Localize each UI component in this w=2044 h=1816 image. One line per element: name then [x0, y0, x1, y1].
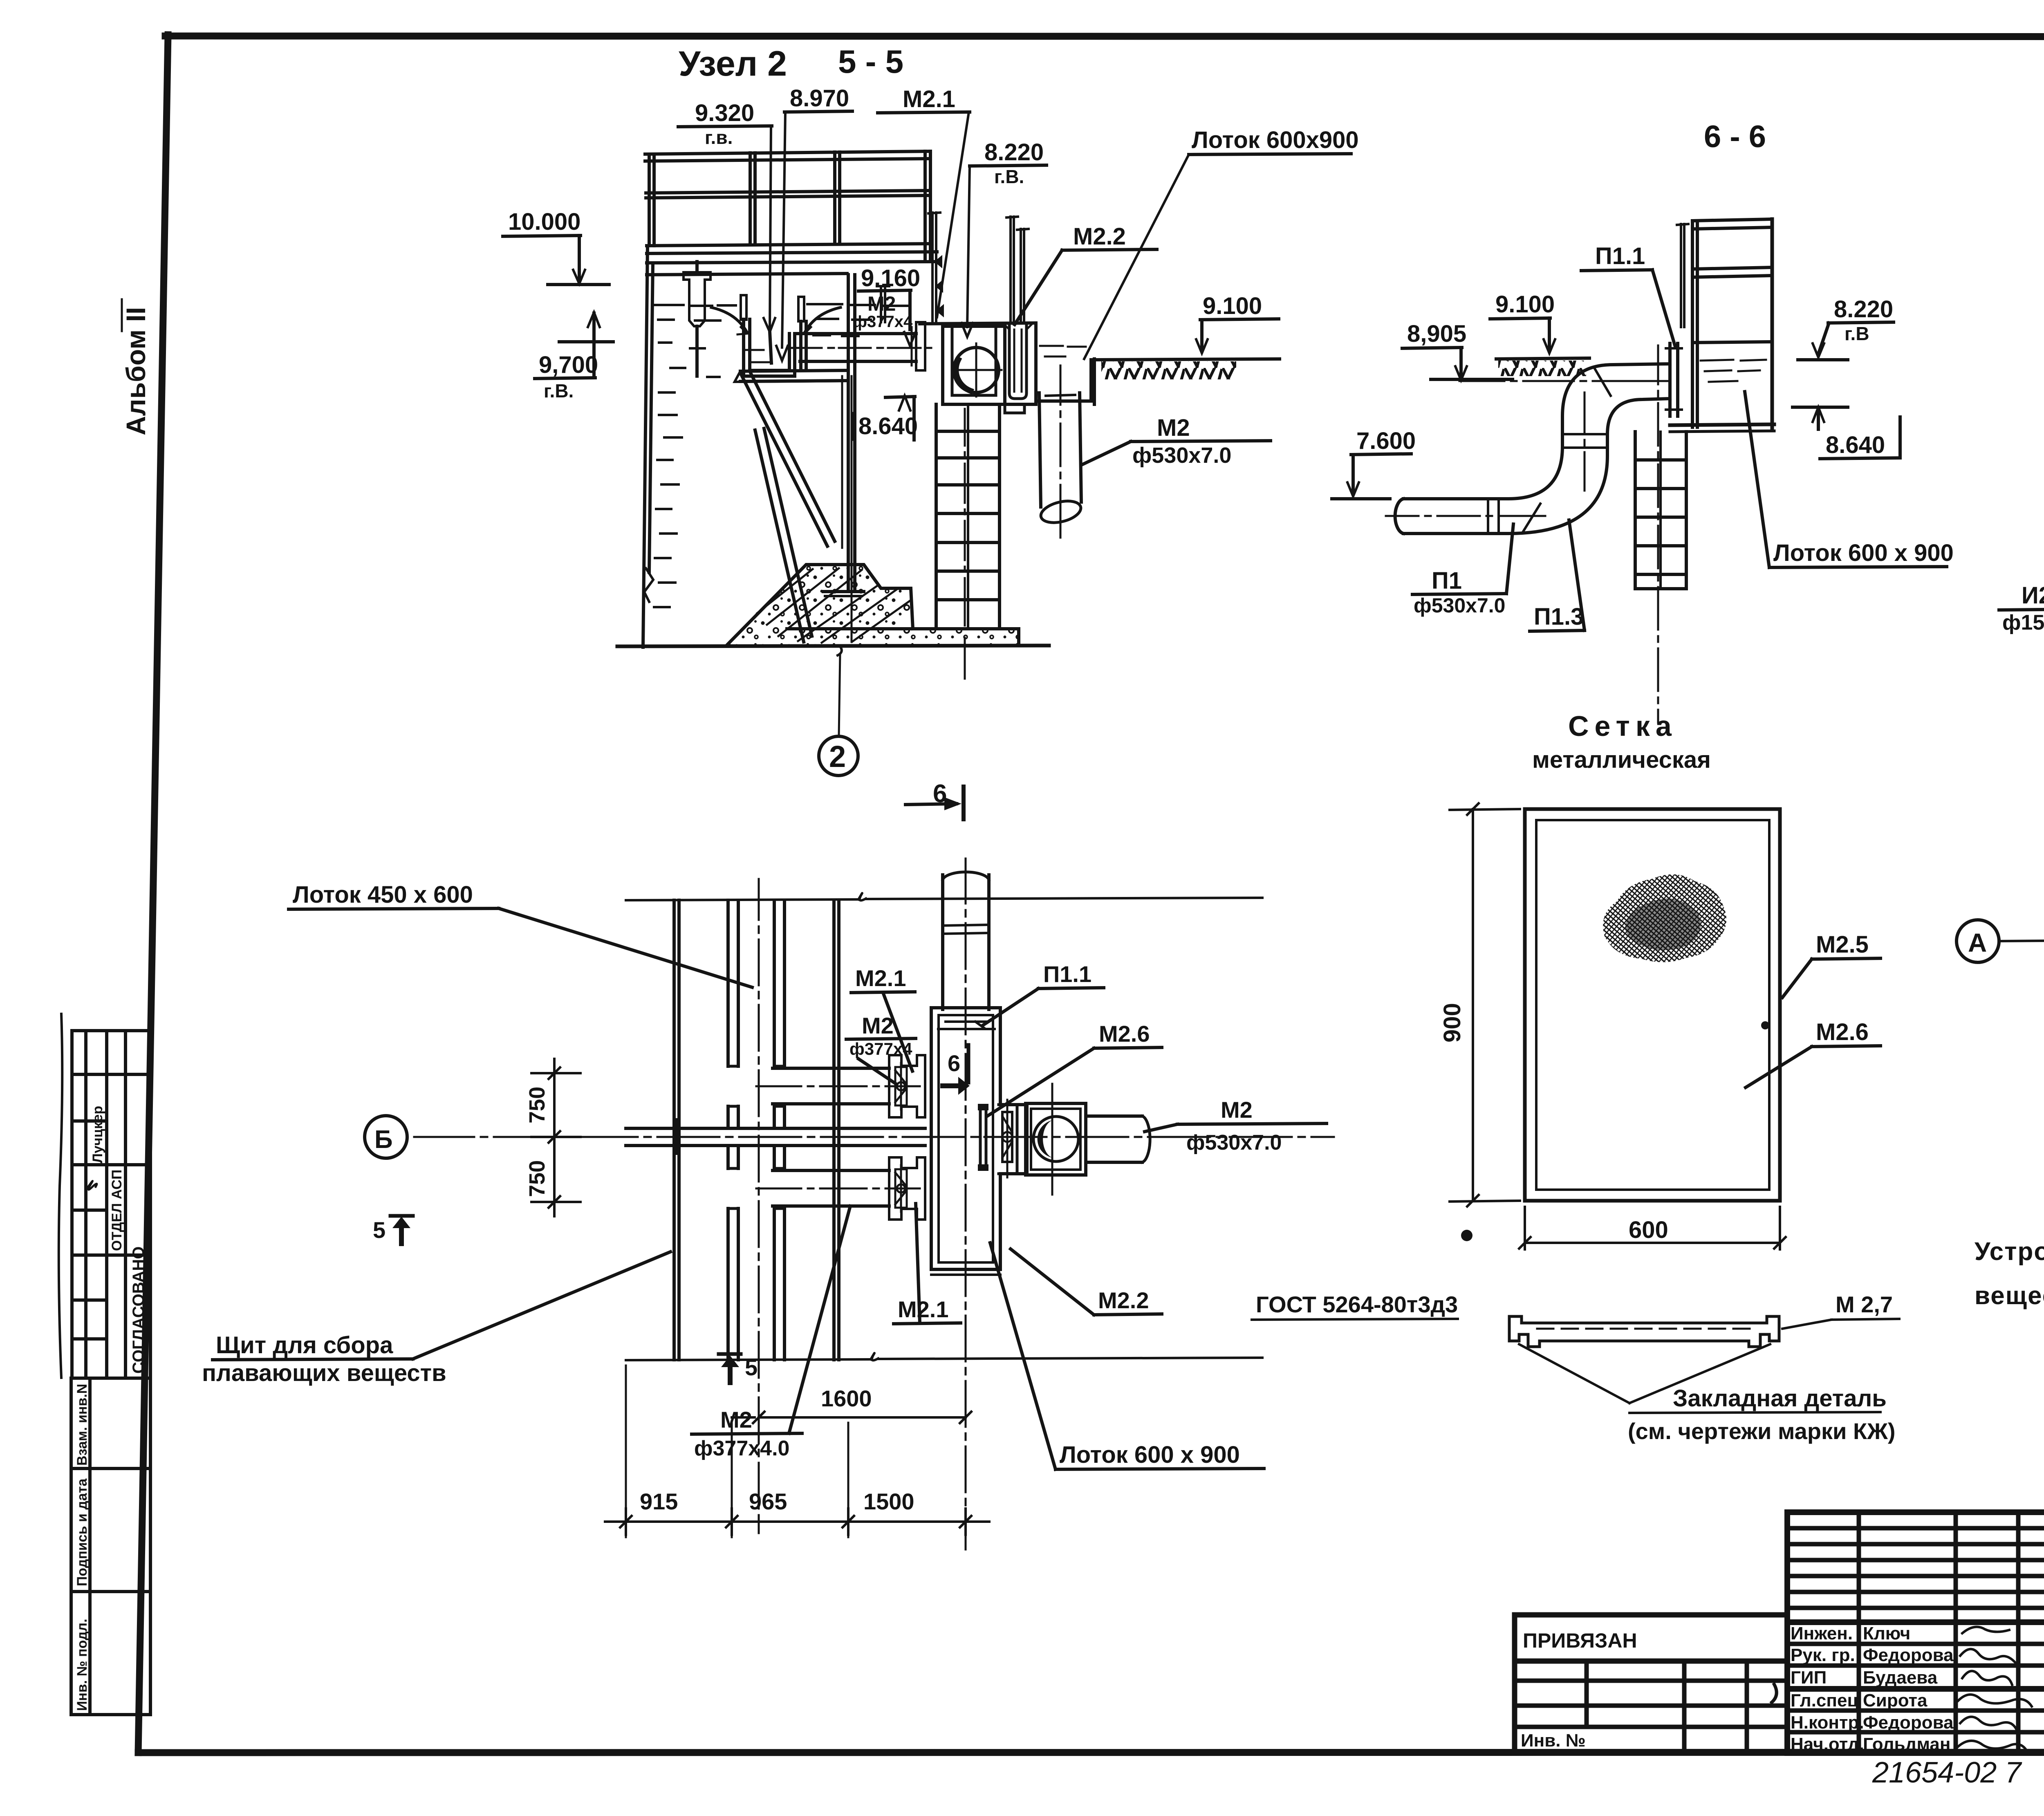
mesh rectangle	[1525, 809, 1780, 1201]
strip dashes inside	[1537, 1328, 1750, 1330]
left margin scratch mark	[59, 1014, 63, 1378]
label М2.2 with leader	[1015, 223, 1157, 325]
svg-text:Лоток 600 х 900: Лоток 600 х 900	[1773, 540, 1954, 566]
svg-text:9.160: 9.160	[861, 265, 920, 291]
central support column	[823, 275, 864, 596]
label И2 ф159х4 with leader	[1999, 389, 2044, 634]
svg-text:Подпись и дата: Подпись и дата	[74, 1478, 90, 1586]
svg-text:Гольдман: Гольдман	[1863, 1734, 1950, 1754]
label Лоток 600 х 900 bottom	[990, 1243, 1264, 1469]
title block outer box	[1787, 1512, 2044, 1753]
М2.1 wall plate left of channel	[877, 213, 940, 323]
svg-text:П1.3: П1.3	[1534, 603, 1584, 630]
svg-text:Гл.спец: Гл.спец	[1791, 1690, 1858, 1711]
svg-text:Лоток 450 х 600: Лоток 450 х 600	[293, 881, 473, 908]
left margin stamp table: СОГЛАСОВАНО block	[72, 1031, 150, 1378]
svg-text:Н.контр.: Н.контр.	[1791, 1713, 1864, 1733]
role names	[1791, 1623, 1954, 1754]
pier centerline	[1657, 345, 1659, 723]
dimension 7.600 level	[1332, 428, 1416, 499]
masonry pier below	[1635, 432, 1686, 589]
svg-text:г.В.: г.В.	[544, 380, 574, 401]
svg-text:Федорова: Федорова	[1863, 1645, 1954, 1665]
left margin: Альбом II rotated label	[121, 299, 151, 435]
dimension 9.100 level	[1196, 293, 1279, 353]
outlet channel box (лоток cross-section)	[943, 326, 1005, 404]
label П1.1 with leader	[1581, 243, 1675, 347]
shield wall (щит)	[674, 900, 679, 1360]
upper stub pipe М2 ф377 in plan	[756, 1055, 925, 1117]
vertical pipe М2 ф530	[1039, 365, 1083, 538]
label Закладная деталь	[1628, 1385, 1895, 1444]
foundation mound with concrete speckle	[727, 565, 913, 645]
svg-text:1500: 1500	[863, 1489, 914, 1514]
label П1.3 with leader	[1530, 520, 1585, 631]
right structure box (лоток walls)	[1677, 219, 1772, 428]
svg-text:Альбом II: Альбом II	[121, 307, 151, 435]
section 6 cut mark inside plan	[940, 1045, 970, 1095]
svg-text:Инв. №: Инв. №	[1521, 1731, 1586, 1751]
note text устройство	[1975, 1238, 2044, 1310]
dimension 8.220 г.в.	[961, 139, 1047, 337]
svg-text:Лучцкер: Лучцкер	[90, 1106, 105, 1163]
wall break mark	[644, 568, 653, 602]
svg-text:П1: П1	[1432, 567, 1462, 594]
svg-text:А: А	[1968, 928, 1987, 957]
section 5 cut mark left	[373, 1216, 413, 1246]
label М2.6 plan	[987, 1021, 1162, 1116]
dimension 600 horizontal	[1519, 1207, 1786, 1249]
svg-text:Нач.отд.: Нач.отд.	[1791, 1734, 1864, 1754]
diagonal hatch on mound	[757, 568, 911, 643]
dimension 9.320 г.в.	[678, 100, 775, 363]
svg-text:металлическая: металлическая	[1532, 747, 1711, 773]
pipe end cap	[1395, 499, 1403, 534]
svg-text:Инжен.: Инжен.	[1791, 1623, 1853, 1643]
svg-text:М2.5: М2.5	[1816, 931, 1869, 958]
svg-text:М2: М2	[720, 1407, 752, 1433]
water dashes in pit	[1040, 345, 1063, 347]
svg-text:915: 915	[640, 1489, 678, 1514]
svg-text:750: 750	[525, 1087, 549, 1123]
dimension 8,905 level	[1402, 321, 1513, 380]
П1 pipe seat	[938, 1028, 995, 1030]
svg-text:900: 900	[1439, 1003, 1466, 1043]
anchor bolt above	[1680, 224, 1682, 327]
column centerline	[964, 409, 966, 679]
dimension 750 upper	[525, 1059, 580, 1216]
svg-text:ф377х4: ф377х4	[849, 1039, 912, 1058]
svg-text:М2.6: М2.6	[1099, 1021, 1150, 1047]
svg-text:ф530х7.0: ф530х7.0	[1186, 1131, 1282, 1155]
walkway slab	[647, 252, 937, 275]
weir support slab	[735, 370, 846, 382]
named signature rows	[1787, 1642, 2044, 1646]
лоток 600х900 fitting outline in plan	[931, 1008, 1027, 1275]
svg-text:М2.2: М2.2	[1098, 1287, 1149, 1313]
third wall in plan	[834, 900, 839, 1360]
axis Б horizontal centerline	[414, 1136, 1334, 1138]
left margin stamp table: Взам/Подпись/Инв block	[71, 1378, 150, 1715]
ground baseline	[617, 646, 1049, 646]
anchor bolts above liner	[936, 217, 1029, 323]
dimension 900 vertical	[1439, 803, 1521, 1206]
М2.2 liner channel	[1004, 324, 1032, 399]
label Лоток 600 х 900 with leader	[1745, 392, 1954, 567]
svg-text:Сетка: Сетка	[1568, 710, 1677, 742]
pipe centerline	[789, 347, 931, 349]
label М2.1 with leader	[878, 86, 970, 317]
svg-text:М2.2: М2.2	[1073, 223, 1126, 250]
svg-text:плавающих веществ: плавающих веществ	[202, 1360, 446, 1386]
svg-text:8.220: 8.220	[984, 139, 1044, 166]
pipe М2 ф377 horizontal	[789, 322, 931, 370]
svg-text:Инв. № подл.: Инв. № подл.	[74, 1619, 90, 1711]
М2.6 plate inside	[979, 1109, 982, 1165]
svg-text:ф159х4: ф159х4	[2002, 611, 2044, 634]
svg-text:5: 5	[373, 1217, 385, 1243]
svg-text:ф530х7.0: ф530х7.0	[1414, 594, 1506, 617]
svg-text:8,905: 8,905	[1407, 321, 1466, 347]
outlet pipe М2 ф530 in plan	[1086, 1116, 1150, 1162]
circle А with leader	[1957, 920, 2044, 962]
embedded plate strip	[1509, 1316, 1779, 1347]
column footing plate	[823, 590, 864, 593]
svg-text:ОТДЕЛ АСП: ОТДЕЛ АСП	[109, 1170, 125, 1251]
lower stub pipe М2 ф377 in plan	[756, 1157, 925, 1220]
svg-text:9.100: 9.100	[1203, 293, 1262, 319]
П1 vertical centerline down through fitting	[965, 859, 967, 1549]
svg-text:веществ приварить по месту.: веществ приварить по месту.	[1975, 1282, 2044, 1310]
svg-text:Устройство для сбора плаваю: Устройство для сбора плавающих	[1975, 1238, 2044, 1266]
pipe opening circle	[954, 348, 999, 392]
ground line right with hatch	[1094, 359, 1280, 379]
water dashes	[1701, 360, 1766, 382]
wall flange П1.1 plate	[1666, 343, 1682, 416]
svg-text:Лоток 600 х 900: Лоток 600 х 900	[1060, 1442, 1240, 1468]
svg-text:600: 600	[1629, 1217, 1668, 1243]
svg-text:М2.1: М2.1	[855, 965, 906, 991]
svg-text:ПРИВЯЗАН: ПРИВЯЗАН	[1523, 1629, 1637, 1652]
svg-text:21654-02 7: 21654-02 7	[1872, 1756, 2022, 1789]
label М2 ф530х7.0 plan	[1145, 1097, 1327, 1155]
floor slab under box	[1670, 424, 1774, 432]
svg-text:М2: М2	[1221, 1097, 1253, 1123]
dimension 8.640 level	[1793, 407, 1900, 459]
dimension 1600	[732, 1386, 971, 1423]
svg-text:10.000: 10.000	[508, 209, 580, 235]
ground line with hatch (left)	[1496, 358, 1589, 376]
svg-text:5 - 5: 5 - 5	[838, 43, 903, 80]
pipe centerlines	[1386, 381, 1668, 516]
pipe flange	[916, 322, 925, 370]
centerline to detail circle	[838, 376, 852, 736]
pipe seams	[1487, 499, 1489, 534]
svg-text:СОГЛАСОВАНО: СОГЛАСОВАНО	[130, 1247, 148, 1374]
svg-text:ф377х4.0: ф377х4.0	[694, 1437, 789, 1460]
svg-text:965: 965	[749, 1489, 787, 1514]
лоток 450х600 walls in plan	[728, 900, 784, 1360]
svg-text:2: 2	[829, 740, 846, 773]
svg-text:М2.1: М2.1	[898, 1296, 949, 1322]
svg-text:М2: М2	[862, 1013, 894, 1038]
weir trough	[741, 295, 806, 376]
signature grid small rows	[1787, 1526, 2044, 1531]
dimension 8.970	[776, 85, 852, 361]
svg-text:г.В: г.В	[1845, 323, 1869, 344]
svg-text:И2: И2	[2022, 582, 2044, 609]
tank walls top boundary	[626, 893, 1262, 901]
frame bottom edge	[138, 1752, 2044, 1753]
label Лоток 450 х 600	[289, 881, 752, 987]
svg-text:ГИП: ГИП	[1791, 1668, 1827, 1688]
frame left edge	[138, 35, 168, 1753]
label М2 ф377х4 upper	[846, 1013, 916, 1083]
label П1.1 plan	[983, 961, 1104, 1025]
svg-text:П1.1: П1.1	[1043, 961, 1091, 987]
svg-text:9.100: 9.100	[1495, 291, 1555, 318]
dimension 8.220 г.В level	[1798, 296, 1894, 360]
wall centerlines vertical	[758, 879, 760, 1533]
svg-text:1600: 1600	[821, 1386, 872, 1411]
label П1 ф530х7.0 with leader	[1412, 524, 1513, 617]
label М2.1 upper	[851, 965, 915, 1071]
outlet pit walls	[943, 323, 1094, 413]
dimension chain 915 965 1500	[605, 1365, 989, 1537]
frame top edge	[165, 36, 2044, 37]
label М2,7	[1782, 1291, 1899, 1329]
svg-text:Сирота: Сирота	[1863, 1690, 1927, 1711]
label М2 ф377х4.0 bottom	[692, 1206, 850, 1460]
section 5 cut mark bottom	[719, 1354, 758, 1385]
weir end plates	[741, 295, 746, 320]
central pipe through shield in plan	[626, 1128, 925, 1146]
dimension 10.000 with level mark	[503, 209, 609, 285]
svg-text:9.320: 9.320	[695, 100, 754, 126]
svg-text:8.640: 8.640	[858, 413, 918, 439]
svg-text:М 2,7: М 2,7	[1836, 1291, 1893, 1317]
water in trough	[746, 349, 764, 351]
svg-text:750: 750	[525, 1160, 549, 1197]
svg-text:Ключ: Ключ	[1863, 1623, 1910, 1643]
flange circle on outlet	[1026, 1084, 1086, 1195]
svg-text:ф530х7.0: ф530х7.0	[1132, 443, 1231, 468]
flow arrows into weir	[711, 307, 840, 334]
svg-text:Федорова: Федорова	[1863, 1713, 1954, 1733]
svg-text:(см. чертежи марки КЖ): (см. чертежи марки КЖ)	[1628, 1418, 1895, 1444]
svg-text:Б: Б	[374, 1125, 393, 1154]
М2.6 flange plate with bolt	[999, 1100, 1017, 1177]
dimension 8.640	[853, 396, 918, 440]
svg-text:Щит для сбора: Щит для сбора	[216, 1332, 393, 1359]
channel centerlines	[975, 343, 977, 397]
svg-text:М2: М2	[1157, 415, 1190, 441]
svg-text:ГОСТ 5264-80т3д3: ГОСТ 5264-80т3д3	[1256, 1291, 1458, 1317]
step notch under liner	[1005, 404, 1024, 413]
svg-text:6: 6	[948, 1050, 960, 1076]
svg-text:Закладная деталь: Закладная деталь	[1673, 1385, 1887, 1412]
axis marker Б	[365, 1116, 407, 1158]
signature grid columns	[1857, 1512, 1861, 1753]
hatched blob defect	[1603, 874, 1726, 962]
svg-text:6 - 6: 6 - 6	[1704, 119, 1766, 154]
top slab over wall	[920, 323, 1036, 324]
svg-text:8.970: 8.970	[790, 85, 849, 112]
dimension 9.100 level	[1490, 291, 1555, 353]
svg-text:Рук. гр.: Рук. гр.	[1791, 1645, 1855, 1665]
detail circle 2	[819, 736, 858, 776]
guard railing	[645, 151, 932, 262]
extension lines	[625, 1365, 627, 1537]
signature squiggle	[87, 1181, 97, 1190]
label Лоток 600x900 with leader	[1084, 127, 1359, 359]
dimension 9.700 г.в. with level mark	[535, 312, 613, 401]
svg-text:Узел 2: Узел 2	[679, 44, 787, 83]
label М2.2 plan	[1011, 1249, 1162, 1315]
svg-text:г.в.: г.в.	[705, 127, 733, 148]
foundation base strip	[787, 629, 1019, 645]
svg-text:М2.6: М2.6	[1816, 1019, 1869, 1045]
tank left wall	[643, 246, 653, 647]
svg-text:П1.1: П1.1	[1595, 243, 1645, 269]
svg-text:ф377х4: ф377х4	[853, 313, 913, 331]
svg-text:8.220: 8.220	[1834, 296, 1893, 323]
water surface dashes	[654, 304, 908, 607]
railing posts	[648, 154, 651, 246]
svg-text:7.600: 7.600	[1356, 428, 1416, 454]
label М2.1 lower	[894, 1204, 961, 1324]
svg-text:8.640: 8.640	[1826, 432, 1885, 458]
leaders to label закладная деталь	[1519, 1344, 1770, 1403]
label Щит для сбора плавающих веществ	[202, 1252, 670, 1386]
dimension 9.160 М2 ф377х4	[853, 265, 920, 346]
svg-text:Лоток 600х900: Лоток 600х900	[1192, 127, 1359, 153]
label М2.6	[1746, 1019, 1880, 1087]
S-shaped pipe П1	[1395, 364, 1670, 534]
ПРИВЯЗАН block	[1515, 1615, 1787, 1752]
inclined strut	[741, 371, 835, 546]
signatures squiggles	[1958, 1627, 2032, 1752]
flange fitting	[889, 1055, 925, 1117]
section 6 cut mark (upper, between views)	[905, 780, 964, 819]
label М2 ф530х7.0 with leader	[1083, 415, 1271, 468]
svg-text:5: 5	[745, 1354, 758, 1380]
sloped tank floor lines	[755, 428, 812, 642]
label М2.5	[1782, 931, 1880, 998]
svg-text:Взам. инв.N: Взам. инв.N	[74, 1384, 90, 1466]
tank walls bottom boundary	[626, 1353, 1262, 1361]
svg-text:9,700: 9,700	[539, 352, 598, 378]
right masonry column with grid	[936, 404, 1000, 679]
svg-text:М2.1: М2.1	[903, 86, 955, 112]
svg-text:г.В.: г.В.	[994, 166, 1024, 187]
svg-text:Будаева: Будаева	[1863, 1668, 1938, 1688]
black dot left	[1461, 1230, 1472, 1241]
vertical pipe П1 entering in plan	[943, 872, 989, 1009]
hanging scraper bolt	[684, 262, 710, 376]
